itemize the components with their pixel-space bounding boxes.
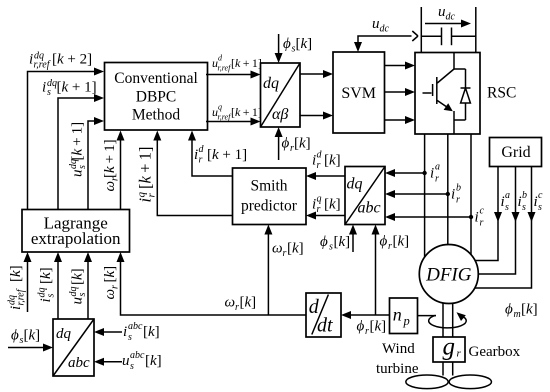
svg-text:ϕ: ϕ [11,328,19,344]
wire i_r^c to rotor dq/abc [385,213,471,221]
wire stator phase a Grid to DFIG [475,167,502,261]
svg-text:dq: dq [347,176,363,193]
wire SVM to RSC a [385,62,416,70]
label phi_s[k] above dq/ab [283,36,312,55]
label phi_s[k] stator input [11,328,40,347]
capacitor C dc-link [421,28,476,46]
wire omega_r[k] bus d/dt to Lagrange [117,252,307,315]
wire i_r^q[k] rotor dq/abc to Smith [306,212,345,220]
wire i_r,ref[k+2] into DBPC [28,68,105,210]
svg-text:s: s [47,87,51,98]
block U2 dq/alphabeta transform [261,63,301,127]
svg-text:s: s [130,361,134,372]
node junction i_r^b [446,192,450,196]
svg-text:SVM: SVM [341,85,376,102]
svg-text:b: b [456,183,461,194]
svg-text:ϕ: ϕ [505,302,513,318]
label i_r^q[k+1] rotated [135,147,157,203]
svg-text:[k]: [k] [370,319,387,335]
svg-text:u: u [122,353,130,369]
svg-text:u: u [70,170,86,178]
svg-text:extrapolation: extrapolation [31,229,121,248]
svg-text:[k]: [k] [296,36,313,52]
svg-text:[k + 1]: [k + 1] [102,139,118,178]
block U11 pole pairs n_p [390,298,418,334]
diode D1 inside RSC [454,69,471,120]
label phi_r[k] below dq/ab [282,136,311,155]
label phi_r[k] right of phi_r line [380,234,410,253]
label i_r,ref^dq[k] rotated [7,265,27,310]
wire phi_s[k] into stator dq/abc [8,344,53,352]
turbine blade left [406,375,448,389]
svg-text:[k + 1]: [k + 1] [207,147,247,163]
svg-text:ω: ω [272,241,283,257]
svg-text:c: c [480,206,485,217]
rotation arrow around shaft [429,312,467,328]
svg-text:[k]: [k] [102,266,118,283]
label i_s^b [518,190,528,213]
label i_s^dq[k+1] [42,78,97,98]
label i_s^abc[k] [123,321,160,343]
wire stator phase b Grid to DFIG [478,167,519,275]
svg-text:r: r [435,174,439,185]
wire i_s[k+1] into DBPC [58,94,104,210]
svg-text:ϕ: ϕ [282,136,290,152]
svg-text:a: a [435,162,440,173]
svg-text:r: r [317,204,321,215]
svg-text:r: r [110,285,121,289]
svg-text:r: r [365,326,369,337]
svg-text:αβ: αβ [272,106,288,123]
svg-text:abc: abc [130,350,145,361]
block U1 Conventional DBPC Method [105,63,208,131]
wire phi_s[k] stub into rotor dq/abc [349,225,357,253]
label i_r^d[k] [312,150,341,172]
wire u_dc tap to SVM [354,31,418,52]
svg-text:[k]: [k] [324,197,341,213]
svg-text:Gearbox: Gearbox [469,344,521,360]
svg-text:q: q [218,102,222,111]
wire phi_r[k] into dq/ab bottom [275,127,283,160]
label omega_r[k] on bus [225,295,257,314]
svg-text:[k + 1]: [k + 1] [70,122,86,161]
svg-text:n: n [393,305,402,325]
label phi_r[k] below n_p line [357,319,387,338]
wire rotor phase c RSC to DFIG [470,134,472,255]
svg-text:a: a [505,190,510,201]
wire dc-link left rail [420,7,422,53]
svg-text:i: i [123,324,127,340]
block U9 stator dq/abc transform [53,319,94,376]
wire n_p to shaft sensor [418,315,437,317]
svg-text:DFIG: DFIG [425,265,472,286]
svg-text:abc: abc [358,200,381,217]
svg-text:[k + 1]: [k + 1] [57,80,97,96]
svg-text:ϕ: ϕ [320,234,328,250]
wire i_s^abc[k] into stator dq/abc [94,328,122,336]
wire rotor phase a RSC to DFIG [424,134,426,257]
label omega_r[k] rotated [102,266,121,300]
wire dq/ab to SVM upper [300,70,333,78]
svg-text:Wind: Wind [382,341,415,357]
wire phi_r[k] into rotor dq/abc from n_p line [372,225,380,316]
svg-text:abc: abc [128,321,143,332]
svg-text:r: r [388,241,392,252]
svg-text:s: s [329,242,333,253]
svg-text:r: r [480,218,484,229]
svg-text:b: b [522,190,527,201]
wire i_r^d[k] rotor dq/abc to Smith [306,172,345,180]
svg-text:m: m [514,309,521,320]
transistor Q1 IGBT inside RSC [423,53,455,135]
label u_s^dq[k+1] rotated [68,122,88,177]
block U6 Smith predictor [233,168,307,225]
svg-text:r: r [235,302,239,313]
label u_r,ref^d[k+1] [212,54,262,73]
wire i_s dq from stator transform to Lagrange [54,252,62,319]
label i_r^a at node [430,162,440,185]
svg-text:ϕ: ϕ [357,319,365,335]
svg-text:[k]: [k] [334,234,351,250]
svg-text:r,ref: r,ref [34,60,51,71]
svg-text:[k + 1]: [k + 1] [231,56,262,70]
svg-text:ϕ: ϕ [380,234,388,250]
svg-text:i: i [38,298,54,302]
svg-text:ω: ω [102,181,118,192]
svg-text:r: r [457,348,462,360]
wire shaft gearbox to blades [443,362,453,376]
wire u_dc measurement arrow top [425,20,471,28]
wire dq/ab to SVM lower [300,112,333,120]
svg-text:s: s [46,294,57,298]
svg-text:s: s [538,202,542,213]
svg-text:i: i [451,187,455,203]
svg-text:r: r [456,195,460,206]
svg-text:s: s [522,202,526,213]
svg-text:r,ref: r,ref [16,288,27,305]
wire phi_s[k] into dq/ab top [275,34,283,63]
svg-text:[k]: [k] [324,153,341,169]
label u_r,ref^q[k+1] [212,102,262,121]
label i_r,ref^dq[k+2] [29,51,92,71]
svg-text:Grid: Grid [501,144,530,161]
label Wind turbine [376,341,419,377]
wire u_s^abc[k] into stator dq/abc [94,358,122,366]
svg-text:[k]: [k] [8,265,24,282]
svg-text:[k]: [k] [145,353,162,369]
svg-text:q: q [317,194,322,205]
svg-text:r: r [283,248,287,259]
block U3 SVM [333,52,385,133]
svg-text:dq: dq [56,326,72,342]
svg-text:[k + 1]: [k + 1] [135,147,154,190]
svg-text:i: i [42,80,46,96]
node junction i_r^a [422,171,426,175]
svg-text:r: r [317,160,321,171]
svg-text:s: s [505,202,509,213]
svg-text:r,ref: r,ref [218,64,233,73]
svg-text:r: r [199,155,203,166]
svg-text:[k + 1]: [k + 1] [231,105,262,119]
block M1 DFIG generator circle [419,245,478,304]
svg-text:p: p [403,314,410,328]
wire omega_r[k+1] Lagrange to DBPC [117,131,125,210]
block U10 d/dt derivative [306,293,341,337]
wire omega_r[k] stub into Smith bottom [264,225,272,316]
svg-text:u: u [70,297,86,305]
label omega_r[k] right of Smith stub [272,241,304,260]
svg-text:ω: ω [225,295,236,311]
svg-text:[k]: [k] [70,268,86,285]
svg-text:[k]: [k] [521,302,538,318]
svg-text:[k]: [k] [294,136,311,152]
block U7 rotor dq/abc transform [345,167,385,225]
svg-text:[k]: [k] [143,324,160,340]
wire i_r^a to rotor dq/abc [385,169,425,177]
wire n_p to d/dt [341,311,390,319]
wire shaft DFIG to gearbox [443,303,453,337]
svg-text:turbine: turbine [376,361,419,377]
svg-text:i: i [430,166,434,182]
block U12 gearbox g_r [433,334,465,363]
svg-text:[k]: [k] [24,328,41,344]
svg-text:[k]: [k] [287,241,304,257]
label i_s^a [501,190,511,213]
block U4 RSC converter [415,53,480,135]
svg-text:ω: ω [102,289,118,300]
svg-text:abc: abc [68,355,90,371]
svg-text:dc: dc [380,24,390,35]
label i_r^q[k] [312,194,341,216]
wire rotor phase b RSC to DFIG [447,134,449,245]
svg-text:r: r [145,193,157,198]
label phi_m[k] [505,302,538,321]
svg-text:[k]: [k] [38,267,54,284]
svg-text:ϕ: ϕ [283,36,291,52]
node junction i_r^c [469,215,473,219]
svg-text:[k + 2]: [k + 2] [52,52,92,68]
wire dc-link right rail [475,7,477,53]
label i_r^d[k+1] [194,144,247,166]
wire stator phase c Grid to DFIG [475,167,536,289]
svg-text:g: g [443,334,456,361]
svg-text:r,ref: r,ref [218,112,233,121]
svg-text:s: s [77,165,88,169]
svg-text:RSC: RSC [487,85,516,102]
label phi_s[k] under rotor dq/abc [320,234,350,253]
label i_r^b at node [451,183,461,206]
svg-text:dc: dc [446,12,456,23]
svg-text:DBPC: DBPC [136,89,177,106]
block U8 Lagrange extrapolation [22,210,130,253]
label u_s^abc[k] [122,350,162,372]
svg-text:dt: dt [317,315,333,337]
svg-text:predictor: predictor [241,198,298,215]
block U5 Grid [490,138,542,167]
svg-text:dq: dq [263,75,279,92]
svg-text:u: u [438,4,446,20]
svg-text:Conventional: Conventional [114,70,198,87]
wire i_r^b to rotor dq/abc [385,190,448,198]
label omega_r[k+1] rotated [102,139,121,191]
wire u_s[k+1] into DBPC [88,117,104,210]
svg-text:[k]: [k] [240,295,257,311]
label u_s^dq[k] rotated [68,268,88,304]
wire i_r,ref[k] stub into Lagrange [24,252,32,312]
label i_s^c [534,190,544,213]
label i_s^dq[k] rotated [37,267,57,302]
wire u_r,ref^q[k+1] DBPC to dq/ab [206,118,261,126]
turbine blade right [449,375,491,389]
label u_dc left [372,16,390,35]
svg-text:c: c [538,190,543,201]
svg-text:u: u [372,16,380,32]
label u_dc right [438,4,456,23]
svg-text:s: s [77,293,88,297]
svg-text:[k]: [k] [393,234,410,250]
wire i_r^d[k+1] Smith to DBPC [188,131,233,177]
svg-text:Smith: Smith [250,178,287,195]
label i_r^c at node [475,206,485,229]
wire SVM to RSC c [385,116,416,124]
wire u_r,ref^d[k+1] DBPC to dq/ab [206,71,261,79]
wire i_r^q[k+1] Smith to DBPC [153,131,232,216]
svg-text:Method: Method [132,107,180,124]
wire u_s dq from stator transform to Lagrange [84,252,92,319]
wire SVM to RSC b [385,88,416,96]
svg-text:s: s [128,332,132,343]
svg-text:i: i [475,210,479,226]
